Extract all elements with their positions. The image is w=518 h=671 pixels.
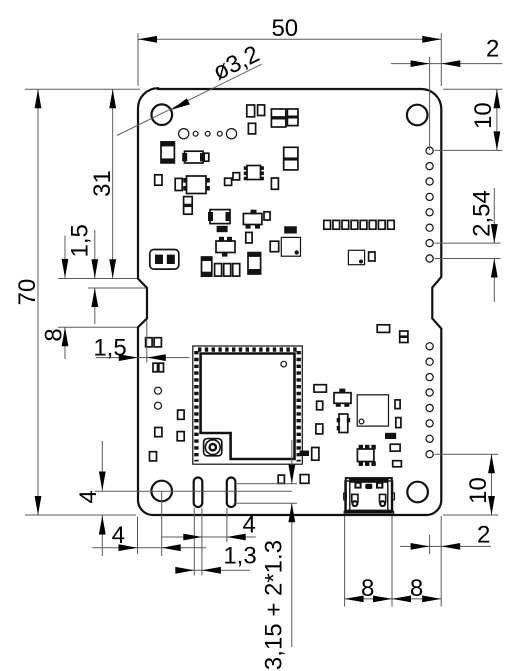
capacitor C17 bbox=[300, 475, 309, 484]
resistor R29 (filled bar) bbox=[377, 325, 389, 333]
slot hole 2 bbox=[227, 478, 236, 508]
resistor R24 (filled) bbox=[385, 433, 396, 439]
svg-text:3,15 + 2*1.3: 3,15 + 2*1.3 bbox=[261, 540, 288, 670]
notch inner top extension line bbox=[88, 287, 147, 289]
resistor R20 bbox=[317, 401, 323, 410]
resistor R22 bbox=[396, 418, 401, 428]
castellation pads right bbox=[297, 351, 301, 462]
dimension 4 between slots bbox=[162, 511, 256, 540]
castellation pads top bbox=[198, 347, 298, 351]
antenna connector U.FL bbox=[204, 439, 222, 456]
svg-text:31: 31 bbox=[89, 170, 116, 197]
resistor R21 bbox=[395, 400, 400, 409]
resistor R13 bbox=[271, 178, 278, 189]
capacitor C5 bbox=[258, 105, 265, 116]
test point row of 5 vias bbox=[179, 129, 237, 139]
dimension 8 notch length bbox=[41, 236, 69, 360]
notch top extension line bbox=[58, 278, 137, 280]
dimension 50 top bbox=[138, 15, 441, 86]
inductor L2 bbox=[287, 109, 298, 126]
resistor R6 bbox=[248, 123, 255, 134]
svg-text:50: 50 bbox=[271, 15, 298, 42]
resistor R14 bbox=[264, 212, 270, 220]
slot hole 1 bbox=[194, 478, 203, 508]
capacitor pair C11 C12 bbox=[146, 338, 162, 347]
svg-text:4: 4 bbox=[112, 522, 125, 549]
right header hole column group 2 bbox=[426, 343, 433, 458]
IC U3 (SOIC) bbox=[244, 166, 264, 181]
resistor R9 bbox=[208, 210, 231, 224]
svg-text:70: 70 bbox=[14, 279, 41, 306]
IC U1 (SOIC) bbox=[183, 176, 210, 194]
svg-text:8: 8 bbox=[361, 575, 374, 602]
svg-text:4: 4 bbox=[75, 490, 102, 503]
mounting hole bottom-left bbox=[151, 481, 172, 502]
resistor R3 bbox=[175, 178, 182, 190]
svg-text:2: 2 bbox=[477, 521, 490, 548]
svg-text:1,5: 1,5 bbox=[93, 334, 126, 361]
module shield can outline bbox=[201, 354, 295, 460]
resistor R4 bbox=[225, 178, 232, 185]
module pin1 via bbox=[281, 361, 287, 367]
dimension 10 top right bbox=[435, 89, 503, 150]
IC U6 (SOIC-6) bbox=[357, 445, 375, 466]
svg-text:4: 4 bbox=[243, 511, 256, 538]
mounting hole top-right bbox=[407, 105, 428, 126]
micro USB connector bbox=[344, 478, 395, 515]
resistor R17 bbox=[369, 252, 375, 261]
capacitor row C7 C8 C9 bbox=[215, 264, 240, 277]
resistor R25 bbox=[390, 444, 400, 451]
capacitor C15 bbox=[155, 428, 162, 437]
capacitor C10 (vertical banded) bbox=[248, 252, 261, 274]
capacitor pair C2 C3 bbox=[184, 197, 193, 215]
resistor R19 bbox=[314, 385, 326, 392]
dimension 70 left bbox=[14, 89, 140, 515]
resistor R27 bbox=[312, 448, 319, 461]
dimension 1,5 notch depth bbox=[93, 321, 189, 363]
transistor Q3 (SOT-23) bbox=[334, 389, 351, 407]
resistor R1 (horizontal) bbox=[182, 151, 209, 163]
slot2 left edge extension line bbox=[226, 508, 228, 542]
svg-text:8: 8 bbox=[410, 575, 423, 602]
dimension 1,5 notch height bbox=[66, 224, 98, 324]
dimension 3,15 + 2*1.3 slot length bbox=[261, 440, 296, 670]
transistor Q1 (SOT-23) bbox=[216, 237, 235, 257]
mounting hole bottom-right bbox=[407, 482, 428, 503]
jumper J1 bbox=[150, 250, 179, 270]
resistor R18 bbox=[153, 363, 164, 372]
notch bottom extension line bbox=[58, 326, 137, 328]
left via pair bbox=[155, 387, 162, 394]
IC U4 with pin1 dot bbox=[348, 250, 364, 264]
hole centerline vertical bbox=[161, 491, 163, 556]
dimension 2,54 right bbox=[435, 188, 501, 302]
dimension 8 USB to right edge bbox=[392, 575, 441, 602]
resistor R2 bbox=[155, 175, 162, 185]
slot1 edge extension lines bbox=[193, 508, 195, 576]
leader line for hole diameter bbox=[117, 41, 264, 136]
resistor R28 (filled) bbox=[300, 451, 310, 457]
board left edge extension below bbox=[137, 517, 139, 555]
svg-text:1,3: 1,3 bbox=[223, 543, 256, 570]
svg-text:2: 2 bbox=[486, 36, 499, 63]
IC U2 with pin1 dot bbox=[281, 237, 300, 256]
USB edge extension lines bbox=[344, 516, 346, 607]
dimension 2 bottom right bbox=[400, 521, 491, 550]
IC U5 (QFN) bbox=[357, 395, 388, 426]
hole column extension stub bottom right bbox=[429, 535, 431, 555]
resistor R30 bbox=[400, 331, 408, 343]
hole centerline horizontal bbox=[94, 490, 291, 492]
svg-text:1,5: 1,5 bbox=[66, 224, 93, 257]
svg-text:10: 10 bbox=[470, 102, 497, 129]
svg-text:10: 10 bbox=[465, 477, 492, 504]
resistor pair R7 R8 (stacked) bbox=[284, 147, 298, 170]
dimension 31 left bbox=[89, 89, 116, 278]
capacitor C16 bbox=[150, 452, 157, 461]
resistor R11 bbox=[246, 232, 252, 243]
capacitor C18 bbox=[278, 475, 284, 483]
resistor R12 bbox=[270, 241, 279, 252]
right header hole column group 1 bbox=[426, 147, 433, 262]
castellation pads left bbox=[194, 351, 198, 462]
resistor R26 bbox=[393, 461, 402, 467]
dimension 4 hole to left edge bbox=[92, 522, 206, 551]
header pad row (8 pads) bbox=[324, 220, 394, 229]
capacitor C4 bbox=[247, 105, 255, 117]
resistor R10 (filled) bbox=[217, 226, 228, 232]
PCB board outline with side notches bbox=[138, 88, 441, 515]
mounting hole top-left bbox=[152, 104, 173, 125]
dimension 4 hole to bottom edge bbox=[75, 441, 106, 556]
capacitor C1 (vertical, banded) bbox=[161, 141, 174, 163]
WiFi module outer castellated edge bbox=[193, 346, 302, 464]
svg-text:8: 8 bbox=[41, 328, 68, 341]
svg-text:2,54: 2,54 bbox=[469, 190, 496, 237]
transistor Q2 (SOT-23) bbox=[243, 210, 262, 229]
capacitor C6 (vertical banded) bbox=[202, 257, 212, 277]
resistor R5 bbox=[233, 173, 240, 180]
inductor L1 (double pad) bbox=[271, 109, 285, 127]
resistor R23 bbox=[316, 424, 323, 434]
capacitor C14 bbox=[177, 432, 184, 441]
dimension 8 USB width bbox=[345, 575, 442, 602]
dimension 10 bottom right bbox=[435, 454, 499, 515]
transistor Q4 (SOT-89 vertical) bbox=[337, 414, 350, 433]
capacitor C13 bbox=[178, 410, 185, 419]
slot vertical extension lines bbox=[237, 483, 297, 485]
resistor R15 (filled) bbox=[284, 226, 297, 233]
dimension 2 top right bbox=[391, 36, 502, 151]
dimension 1,3 slot width bbox=[175, 543, 256, 574]
